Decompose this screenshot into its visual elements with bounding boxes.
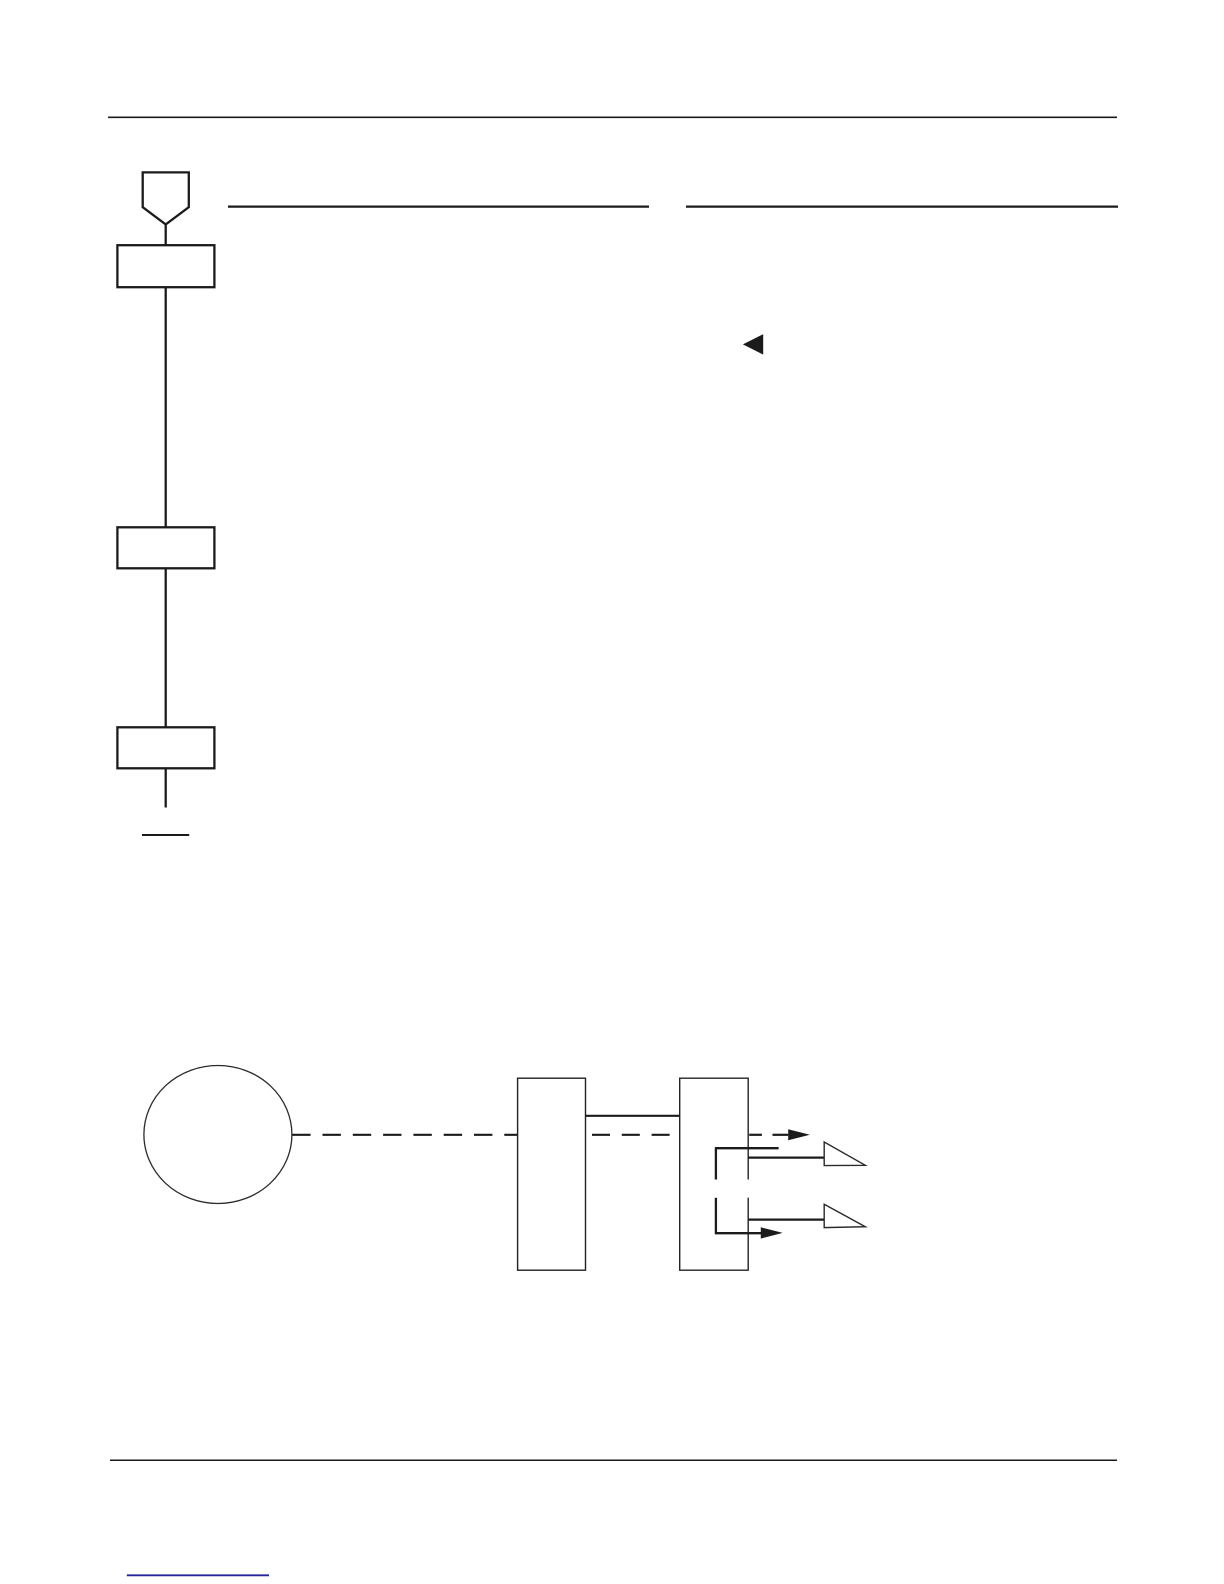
bracket vertical (dashed, upper segment) xyxy=(715,1147,717,1179)
signal wire 1 xyxy=(748,1156,824,1158)
wire below box3 xyxy=(165,768,167,807)
pad triangle 1 (hollow) xyxy=(824,1142,865,1166)
header underline right xyxy=(686,205,1118,207)
dashed wire blockA-to-blockB xyxy=(592,1134,680,1136)
signal wire 2 xyxy=(748,1218,824,1220)
footer link underline (blue) xyxy=(127,1574,269,1576)
arrowhead on bracket bottom xyxy=(761,1227,783,1238)
circle node xyxy=(144,1066,292,1204)
dashed wire out of block B xyxy=(749,1134,762,1136)
arrowhead on dashed wire xyxy=(788,1129,810,1140)
process box 3 xyxy=(117,727,214,768)
wire box2-to-box3 xyxy=(165,568,167,728)
block A xyxy=(518,1078,586,1270)
header underline left xyxy=(228,205,649,207)
pad triangle 2 (hollow) xyxy=(824,1204,865,1227)
solid wire blockA-to-blockB xyxy=(586,1115,680,1117)
top rule xyxy=(108,116,1117,118)
bracket vertical (dashed, lower segment) xyxy=(715,1198,717,1235)
bracket bottom line xyxy=(716,1232,761,1234)
dashed wire circle-to-blockA xyxy=(292,1134,517,1136)
bracket top line xyxy=(716,1147,779,1149)
wire box1-to-box2 xyxy=(165,287,167,528)
block B (right edge interrupted) xyxy=(680,1078,749,1270)
process box 1 xyxy=(117,245,214,287)
process box 2 xyxy=(117,527,214,568)
caption underline below flowchart xyxy=(142,834,189,836)
off-page connector (pentagon) xyxy=(143,172,189,224)
change-bar marker (left-pointing filled triangle) xyxy=(743,334,763,354)
bottom rule xyxy=(110,1459,1117,1461)
wire connector-to-box1 xyxy=(165,224,167,246)
